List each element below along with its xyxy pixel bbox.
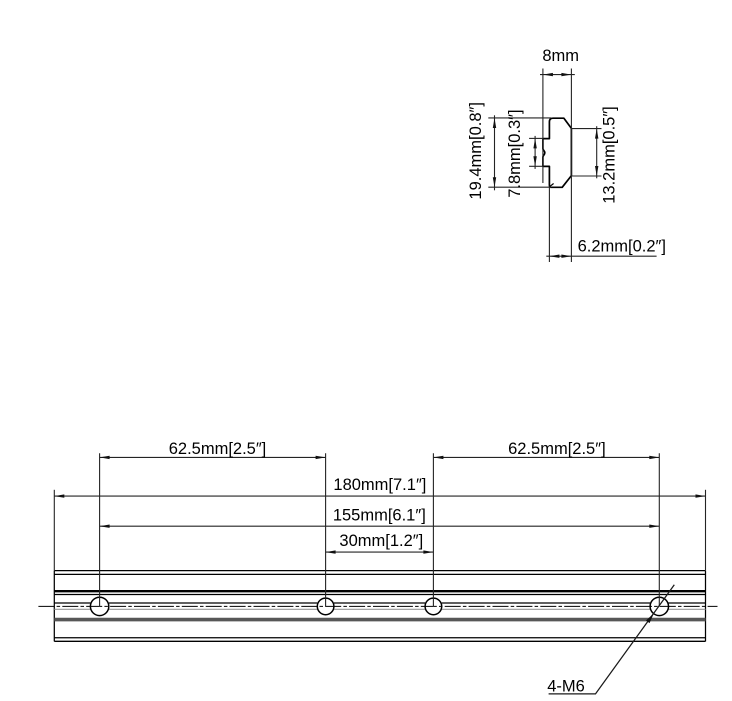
svg-text:155mm[6.1″]: 155mm[6.1″] xyxy=(333,506,426,524)
dimension 180mm line xyxy=(54,494,705,497)
leader 4-M6 xyxy=(549,585,675,694)
profile corner fillet tick xyxy=(550,184,553,187)
dimension 13.2mm line xyxy=(595,126,598,178)
extension line hole 1 xyxy=(99,453,101,606)
rail right end edge xyxy=(705,571,707,642)
extension line rail right end xyxy=(705,490,707,571)
svg-text:8mm: 8mm xyxy=(542,47,579,65)
rail groove line xyxy=(54,594,705,596)
extension line 6.2mm left xyxy=(548,187,550,262)
svg-text:7.8mm[0.3″]: 7.8mm[0.3″] xyxy=(506,109,524,197)
rail bottom edge xyxy=(54,640,705,642)
dimension 19.4mm line xyxy=(493,115,496,190)
svg-text:13.2mm[0.5″]: 13.2mm[0.5″] xyxy=(600,106,618,204)
svg-text:30mm[1.2″]: 30mm[1.2″] xyxy=(339,532,423,550)
dimension 13.2mm extension lines xyxy=(571,129,601,176)
svg-text:62.5mm[2.5″]: 62.5mm[2.5″] xyxy=(169,440,267,458)
hole 2 (M6) xyxy=(317,598,334,615)
rail upper ball-groove band xyxy=(54,590,705,592)
hole 1 (M6) xyxy=(90,597,108,615)
svg-text:180mm[7.1″]: 180mm[7.1″] xyxy=(333,476,426,494)
rail lower gray band xyxy=(54,618,705,622)
dimension 62.5mm left line xyxy=(100,456,326,459)
extension line 8mm left (notch face) xyxy=(542,69,544,184)
svg-text:6.2mm[0.2″]: 6.2mm[0.2″] xyxy=(578,238,666,256)
rail mid line (broken at holes) xyxy=(54,602,705,604)
rail centerline xyxy=(38,605,717,607)
hole 3 (M6) xyxy=(425,598,442,615)
dimension 30mm line xyxy=(326,550,434,553)
rail cross-section profile xyxy=(543,118,572,187)
extension line hole 3 xyxy=(432,453,434,606)
svg-text:19.4mm[0.8″]: 19.4mm[0.8″] xyxy=(467,102,485,200)
rail gray line (broken at holes) xyxy=(54,608,705,610)
extension line 8mm right / 6.2mm right (top face) xyxy=(570,69,572,263)
dimension 8mm line xyxy=(540,73,575,76)
hole 4 (M6) xyxy=(650,597,668,615)
rail top edge xyxy=(54,570,705,572)
rail top groove line xyxy=(54,573,705,575)
dimension 155mm line xyxy=(100,525,660,528)
svg-text:62.5mm[2.5″]: 62.5mm[2.5″] xyxy=(508,440,606,458)
dimension 62.5mm right line xyxy=(433,456,659,459)
extension line hole 2 xyxy=(325,453,327,606)
dimension 19.4mm extension lines xyxy=(488,118,551,187)
extension line rail left end xyxy=(53,490,55,571)
rail bottom groove line xyxy=(54,637,705,639)
dimension 7.8mm extension lines xyxy=(529,138,543,166)
dimension 7.8mm line xyxy=(533,136,536,169)
svg-text:4-M6: 4-M6 xyxy=(547,677,585,695)
rail left end edge xyxy=(53,571,55,642)
extension line hole 4 xyxy=(658,453,660,606)
dimension 6.2mm line xyxy=(546,255,656,258)
